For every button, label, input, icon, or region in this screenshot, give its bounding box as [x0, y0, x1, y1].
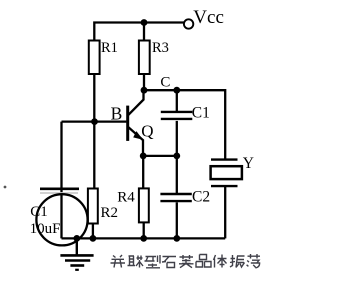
- svg-text:C: C: [160, 75, 170, 91]
- wire C1 branch lower to emitter row: [176, 121, 178, 156]
- electrolytic capacitor C1 10uF circle body: [36, 194, 87, 245]
- junction node R4 bottom: [140, 235, 147, 242]
- wire C2 branch upper: [176, 156, 178, 193]
- caption char 晶: [196, 255, 211, 268]
- capacitor C1 feedback plates: [161, 112, 193, 119]
- wire left branch down to capacitor plate: [60, 122, 62, 188]
- caption char 荡: [247, 254, 260, 268]
- wire R2 bottom to bottom rail: [92, 224, 94, 239]
- electrolytic capacitor C1 10uF faint lower plate: [40, 192, 78, 194]
- caption char 石: [162, 257, 176, 268]
- svg-text:Vcc: Vcc: [193, 7, 224, 28]
- junction node ground tap: [73, 235, 80, 242]
- junction node C2 bottom: [173, 235, 180, 242]
- wire R3 bottom to node C row: [143, 74, 145, 90]
- transistor Q1 collector stroke: [128, 90, 144, 115]
- crystal Y: [211, 160, 242, 187]
- resistor R2: [88, 189, 98, 224]
- ground symbol: [60, 238, 93, 269]
- svg-text:R1: R1: [101, 40, 118, 56]
- caption char 振: [230, 255, 245, 268]
- caption char 并: [111, 255, 126, 268]
- transistor Q1 base bar: [126, 106, 129, 141]
- wire R4 bottom to bottom rail: [143, 223, 145, 239]
- wire top rail Vcc: [94, 23, 184, 41]
- resistor R4: [139, 188, 149, 222]
- svg-text:C1: C1: [192, 105, 210, 122]
- caption char 型: [145, 255, 161, 268]
- svg-text:R4: R4: [117, 189, 135, 205]
- svg-text:Q: Q: [141, 121, 153, 140]
- wire C1 branch upper: [176, 90, 178, 111]
- junction node emitter left: [140, 153, 147, 160]
- junction node R2 bottom: [90, 235, 97, 242]
- wire R1 bottom down through base row to R2 top: [93, 74, 95, 189]
- transistor Q1 emitter stroke with arrow: [128, 127, 143, 156]
- wire emitter row: [143, 155, 177, 157]
- junction node C1 top tap: [173, 87, 180, 94]
- caption char 英: [179, 255, 194, 268]
- junction node base row: [91, 118, 98, 125]
- wire C2 branch lower to bottom rail: [176, 202, 178, 238]
- capacitor C2 plates: [160, 194, 191, 201]
- caption 并联型石英晶体振荡 drawn as strokes: [111, 254, 261, 268]
- svg-text:Y: Y: [243, 155, 254, 172]
- wire node C row horizontal and right branch down to crystal: [144, 90, 225, 158]
- caption char 体: [214, 255, 227, 268]
- wire bottom rail: [62, 237, 226, 239]
- wire emitter row to R4 top: [142, 156, 144, 189]
- electrolytic capacitor C1 10uF plate: [40, 188, 79, 191]
- resistor R1: [89, 41, 100, 75]
- wire base row: [62, 120, 127, 122]
- caption char 联: [128, 256, 144, 268]
- resistor R3: [139, 41, 150, 75]
- wire crystal bottom to bottom rail: [224, 187, 226, 238]
- svg-text:C1: C1: [30, 204, 48, 220]
- svg-text:B: B: [111, 104, 123, 124]
- junction node on Vcc rail: [141, 19, 148, 26]
- svg-text:10uF: 10uF: [30, 221, 61, 237]
- stray dot artifact left edge: [4, 186, 7, 189]
- svg-text:R3: R3: [152, 40, 169, 56]
- wire capacitor through to bottom rail: [60, 190, 62, 239]
- wire R3 top tap: [143, 22, 145, 41]
- junction node emitter right: [173, 153, 180, 160]
- terminal Vcc open circle: [184, 19, 193, 28]
- svg-text:C2: C2: [192, 188, 210, 205]
- svg-text:R2: R2: [101, 205, 119, 221]
- junction node C (collector): [141, 87, 148, 94]
